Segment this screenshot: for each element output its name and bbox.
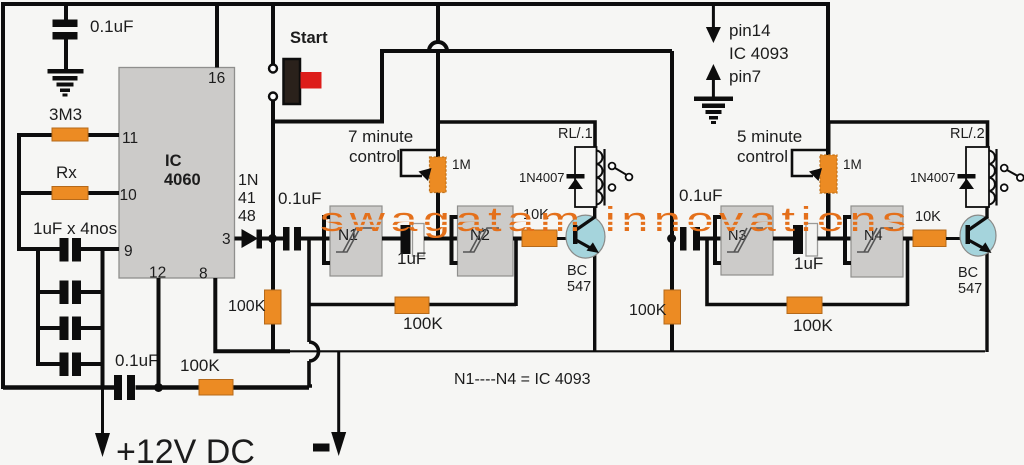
+12V DC arrow	[95, 387, 110, 457]
wire top rail +12V	[3, 4, 828, 389]
wire feedback rail stage1	[309, 303, 516, 307]
gate N4 input tie bracket	[845, 217, 851, 263]
svg-text:+12V DC: +12V DC	[116, 433, 255, 465]
svg-text:IC: IC	[165, 152, 182, 170]
svg-text:3M3: 3M3	[49, 105, 82, 124]
capacitor C-1uF #1 (on pin9 line)	[60, 238, 82, 262]
gate N2 body	[458, 206, 514, 276]
wire pin8 to ground rail	[215, 278, 290, 351]
resistor 3M3	[19, 133, 119, 137]
wire pin16	[215, 4, 219, 68]
ground (pin7)	[694, 97, 733, 125]
transistor Q1 BC547	[566, 207, 605, 352]
resistor 10K stage2	[913, 230, 946, 247]
svg-text:Start: Start	[290, 29, 328, 47]
node junction pin12/bus	[154, 383, 163, 392]
wire cap to N3	[700, 237, 721, 241]
schmitt glyph N2	[463, 228, 499, 252]
svg-text:N1----N4 = IC 4093: N1----N4 = IC 4093	[454, 371, 591, 388]
svg-text:11: 11	[122, 130, 138, 147]
wire cap-stack right bus	[101, 247, 105, 389]
svg-text:IC 4093: IC 4093	[729, 44, 789, 63]
capacitor 0.1uF coupling stage1	[283, 227, 301, 251]
resistor 100K (N3 input pulldown, vertical)	[664, 290, 681, 324]
svg-text:10: 10	[120, 187, 138, 204]
svg-text:1uF: 1uF	[397, 249, 426, 268]
wire ground rail thin	[288, 350, 985, 352]
wire pin12	[157, 278, 161, 388]
capacitor 1uF interstage1	[401, 225, 411, 254]
wire N4 out	[903, 237, 914, 241]
schmitt glyph N3	[727, 228, 763, 252]
wire left bus x=19	[17, 133, 21, 251]
gate N4 body	[851, 206, 903, 277]
svg-text:100K: 100K	[180, 356, 220, 375]
capacitor 0.1uF top-left	[53, 4, 78, 70]
wire N1 bias vertical with hop over ground rail	[309, 239, 319, 387]
svg-text:0.1uF: 0.1uF	[90, 17, 133, 36]
svg-text:547: 547	[567, 279, 591, 295]
pot 1M stage1 (7 minute)	[401, 51, 446, 239]
capacitor C-1uF #2	[38, 281, 103, 305]
resistor 100K (N1 input pulldown, vertical)	[265, 290, 282, 324]
schmitt glyph N4	[857, 228, 893, 252]
svg-text:4060: 4060	[164, 171, 201, 189]
svg-text:10K: 10K	[915, 209, 941, 225]
svg-text:BC: BC	[567, 263, 587, 279]
wire relay1 feed	[438, 122, 595, 147]
gate N3 input tie bracket	[715, 217, 721, 263]
svg-text:100K: 100K	[228, 298, 266, 315]
relay2 contacts	[1001, 165, 1024, 192]
svg-text:0.1uF: 0.1uF	[115, 351, 158, 370]
capacitor C-1uF #3	[38, 317, 103, 341]
relay RL/2	[966, 147, 997, 207]
wire hop (x438 over y51 line)	[436, 2, 440, 43]
gate N2 input tie bracket	[452, 217, 458, 263]
wire Start switch net	[271, 4, 275, 64]
capacitor 0.1uF bottom (on supply bus)	[114, 375, 135, 400]
svg-text:100K: 100K	[629, 302, 667, 319]
wire cap to N4	[818, 237, 852, 241]
svg-text:pin14: pin14	[729, 21, 771, 40]
wire right feed vertical x=828	[826, 2, 830, 240]
svg-text:control: control	[737, 147, 788, 166]
wire cap-stack left bus	[36, 247, 40, 366]
resistor 100K feedback stage2	[787, 297, 822, 314]
gate N1 input tie bracket	[324, 217, 330, 263]
svg-text:RL/.2: RL/.2	[950, 126, 985, 142]
node stage2 coupling junction	[667, 234, 676, 243]
svg-text:1M: 1M	[452, 157, 471, 172]
svg-text:control: control	[349, 147, 400, 166]
gate N1 body	[330, 206, 382, 276]
watermark swagatam innovations	[320, 201, 912, 239]
svg-text:100K: 100K	[793, 316, 833, 335]
wire 10K to base	[557, 237, 574, 240]
svg-text:swagatam innovations: swagatam innovations	[320, 201, 912, 239]
svg-text:547: 547	[958, 281, 982, 297]
svg-text:9: 9	[124, 243, 133, 260]
wire N1 out	[382, 237, 402, 241]
resistor 10K stage1	[522, 230, 557, 247]
svg-text:1N4007: 1N4007	[910, 170, 956, 185]
svg-text:BC: BC	[958, 265, 978, 281]
minus label	[313, 444, 330, 452]
svg-text:Rx: Rx	[56, 163, 77, 182]
node diode/cap junction	[268, 234, 277, 243]
resistor Rx	[19, 191, 119, 195]
svg-text:pin7: pin7	[729, 67, 761, 86]
diode 1N4007 (relay1)	[567, 174, 585, 189]
svg-text:5 minute: 5 minute	[737, 127, 802, 146]
wire feedback rail stage2	[707, 239, 908, 305]
relay1 contacts	[609, 163, 633, 191]
svg-text:100K: 100K	[403, 314, 443, 333]
pin14 supply arrow	[706, 4, 721, 43]
switch Start	[269, 59, 322, 104]
svg-text:16: 16	[208, 70, 225, 87]
resistor 100K (supply bus)	[199, 380, 233, 396]
capacitor C-1uF #4	[38, 353, 103, 377]
relay RL/1	[575, 147, 605, 207]
svg-text:1N4007: 1N4007	[519, 170, 565, 185]
wire N2 out	[513, 237, 523, 241]
wire N4 feedback vertical	[906, 239, 910, 307]
wire N3 out	[773, 237, 794, 241]
wire bottom supply bus	[3, 385, 114, 390]
wire x672 vertical (stage2 feed)	[670, 51, 674, 352]
wire cap to N2	[424, 237, 458, 241]
svg-text:1M: 1M	[843, 157, 862, 172]
resistor 100K feedback stage1	[395, 297, 429, 314]
minus supply arrow	[331, 351, 346, 456]
svg-text:48: 48	[238, 208, 256, 225]
wire N2 feedback vertical	[514, 239, 518, 307]
transistor Q2 BC547	[960, 207, 996, 352]
capacitor 0.1uF coupling stage2	[680, 227, 700, 251]
ground (top-left)	[48, 69, 84, 97]
capacitor 1uF interstage2	[793, 225, 803, 254]
svg-text:1N: 1N	[238, 172, 258, 189]
svg-text:3: 3	[222, 231, 231, 248]
svg-text:1uF: 1uF	[794, 254, 823, 273]
svg-text:7 minute: 7 minute	[348, 127, 413, 146]
gate N3 body	[721, 206, 773, 275]
svg-text:1uF x 4nos: 1uF x 4nos	[33, 219, 117, 238]
diode 1N4148 D1	[235, 229, 285, 249]
schmitt glyph N1	[336, 228, 372, 252]
svg-text:0.1uF: 0.1uF	[278, 189, 321, 208]
svg-text:8: 8	[199, 266, 208, 283]
pot 1M stage2 (5 minute)	[792, 122, 837, 239]
wire relay2 feed	[828, 122, 988, 147]
pin7 ground arrow	[706, 64, 721, 98]
IC 4060 U1 body	[119, 68, 235, 279]
svg-text:RL/.1: RL/.1	[558, 126, 593, 142]
wire cap to N1	[300, 237, 330, 241]
wire 10K to base	[946, 237, 966, 240]
wire pin9 line	[17, 247, 60, 251]
svg-text:41: 41	[238, 190, 256, 207]
diode 1N4007 (relay2)	[958, 174, 976, 189]
